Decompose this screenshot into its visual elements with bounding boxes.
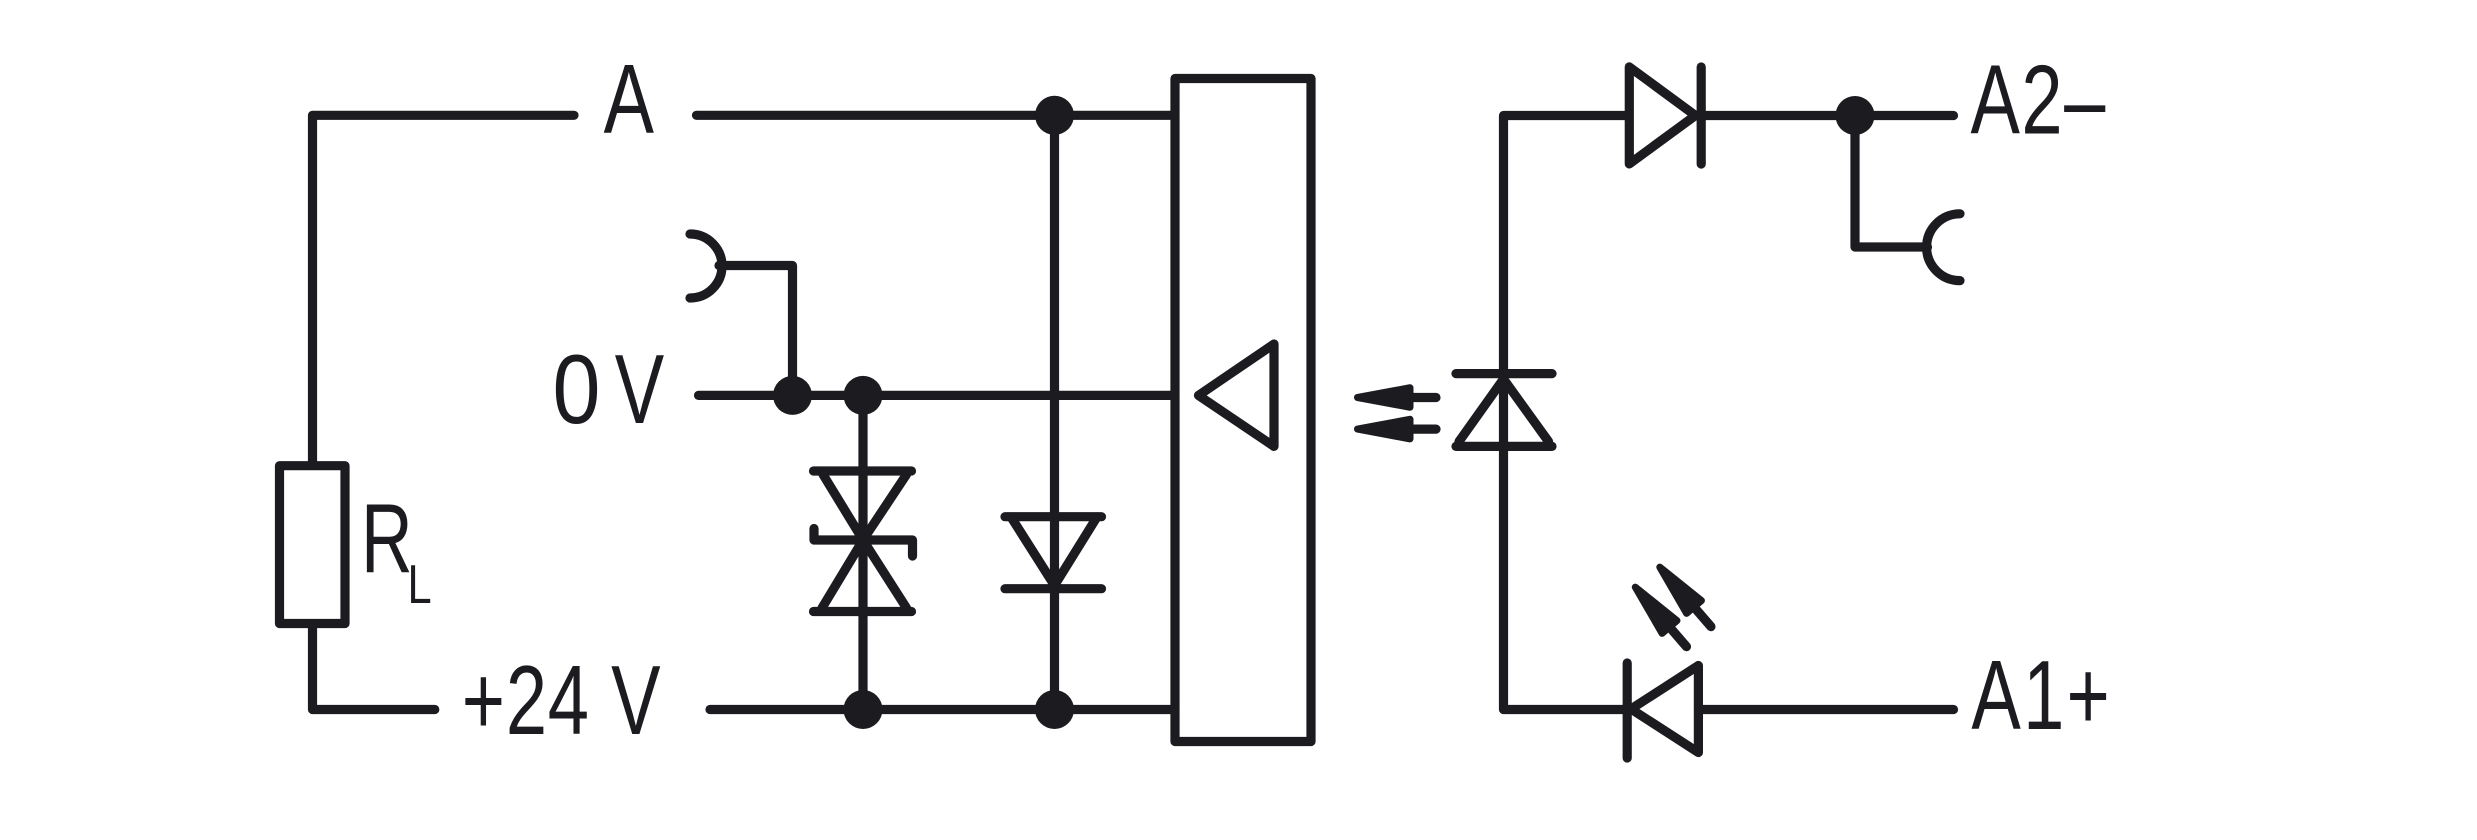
TVS upper triangle sides	[823, 475, 907, 541]
svg-text:+24 V: +24 V	[462, 646, 661, 755]
resistor R_L	[280, 466, 346, 624]
diode D1 anode bar	[1005, 512, 1102, 521]
wire A1	[1700, 705, 1954, 714]
wire jumper branch right	[1855, 116, 1928, 248]
output block U1	[1175, 79, 1311, 742]
wire jumper to 0V	[719, 266, 793, 396]
jumper contact left	[690, 234, 722, 298]
wire A2	[1701, 111, 1953, 120]
wire TVS branch	[858, 395, 867, 709]
junction 0V TVS	[844, 376, 883, 415]
light arrow lower	[1358, 419, 1437, 439]
svg-text:0: 0	[553, 334, 601, 444]
jumper contact right	[1927, 214, 1960, 281]
LED arrow left	[1628, 581, 1694, 653]
wire diode branch	[1050, 115, 1059, 709]
optocoupler LED anode bar	[1456, 442, 1552, 451]
diode D2 triangle	[1629, 67, 1695, 164]
wire +24V left stub	[313, 626, 435, 710]
wire A to output block	[697, 111, 1176, 120]
TVS top bar	[814, 466, 912, 475]
diode D1 triangle	[1011, 517, 1097, 586]
LED D4 cathode bar	[1623, 663, 1632, 758]
junction +24V diode	[1035, 690, 1074, 729]
svg-text:A: A	[604, 44, 655, 154]
junction +24V TVS	[844, 690, 883, 729]
junction on A line	[1035, 96, 1074, 135]
optocoupler LED cathode bar	[1456, 369, 1552, 378]
svg-text:R: R	[361, 484, 413, 594]
svg-text:A2–: A2–	[1971, 46, 2107, 155]
LED D4 triangle	[1631, 666, 1698, 753]
wire 0V to output block	[699, 391, 1176, 400]
junction 0V jumper	[773, 376, 812, 415]
junction A2	[1836, 96, 1875, 135]
TVS bottom bar	[814, 607, 912, 616]
svg-text:V: V	[615, 335, 664, 444]
svg-text:L: L	[408, 553, 432, 615]
optocoupler LED triangle	[1459, 379, 1549, 442]
diode D1 cathode bar	[1005, 584, 1102, 593]
TVS lower triangle sides	[822, 540, 907, 608]
wire +24V to output block	[710, 705, 1175, 714]
light arrow upper	[1358, 388, 1437, 408]
LED arrow right	[1652, 561, 1718, 633]
wire right loop	[1504, 116, 1630, 710]
amplifier triangle	[1199, 344, 1275, 446]
TVS zener bar	[814, 529, 913, 557]
diode D2 cathode bar	[1697, 67, 1706, 164]
wire A left to load	[313, 115, 575, 462]
svg-text:A1+: A1+	[1971, 641, 2112, 750]
